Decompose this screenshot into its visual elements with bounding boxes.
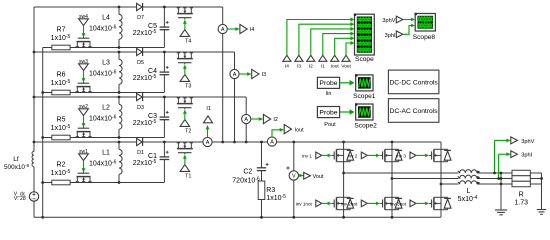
- svg-text:Vout: Vout: [313, 174, 324, 180]
- diode (antiparallel): [347, 197, 354, 209]
- gate port inv 2not: [341, 200, 380, 207]
- svg-text:T4: T4: [185, 38, 191, 44]
- svg-text:Probe: Probe: [319, 80, 337, 87]
- port 3phI (bottom): [497, 151, 532, 180]
- probe Pout: [317, 107, 339, 129]
- scope Scope2: [354, 103, 377, 129]
- port Iout: [272, 125, 304, 138]
- gate driver port T4: [180, 20, 191, 45]
- port 3phV (top): [382, 16, 402, 24]
- wire output drop row L2: [245, 97, 248, 143]
- mosfet switch FET row L1: [76, 172, 92, 183]
- wire cell top rail row L1: [34, 141, 441, 143]
- capacitor C3: [133, 96, 169, 138]
- gate driver port T1: [180, 155, 191, 180]
- svg-text:Scope8: Scope8: [413, 34, 436, 41]
- gate port sw2: [79, 104, 89, 127]
- inductor Lf: [4, 151, 34, 171]
- inductor L2: [89, 96, 122, 139]
- gate port sw4: [79, 14, 89, 37]
- diode (antiparallel): [444, 197, 451, 209]
- diode (antiparallel): [347, 149, 354, 161]
- svg-text:Probe: Probe: [319, 109, 337, 116]
- svg-text:Scope1: Scope1: [353, 93, 376, 100]
- port 3phI (top): [385, 31, 403, 39]
- gate port inv 3: [396, 152, 429, 159]
- scope Scope8: [413, 13, 436, 41]
- ground (load): [537, 210, 547, 215]
- wire output drop row L3: [233, 52, 236, 143]
- wire phase line 1: [344, 172, 459, 174]
- svg-text:3phV: 3phV: [382, 18, 395, 24]
- capacitor C4: [133, 51, 169, 93]
- inductor L1: [89, 141, 122, 184]
- diode D1: [137, 138, 144, 156]
- mosfet switch FET row L3: [76, 82, 92, 93]
- svg-text:L2: L2: [102, 105, 110, 112]
- node bus junction dots: [33, 51, 45, 219]
- wire output drop row L4: [221, 7, 224, 143]
- svg-text:Iin: Iin: [326, 91, 332, 97]
- wire cell top rail row L3: [34, 51, 235, 53]
- gate port inv 3not: [390, 200, 429, 207]
- svg-text:inv 2not: inv 2not: [341, 202, 358, 207]
- diode D5: [137, 48, 144, 66]
- wire star point: [500, 172, 503, 210]
- source V_dc: [14, 191, 39, 202]
- mosfet switch FET row L4: [76, 37, 92, 48]
- port Vout: [299, 172, 324, 179]
- diode D7: [137, 3, 144, 21]
- svg-text:I1: I1: [321, 63, 325, 69]
- svg-text:R7: R7: [57, 26, 66, 33]
- svg-text:R5: R5: [57, 116, 66, 123]
- svg-text:Scope: Scope: [355, 56, 374, 63]
- diode (antiparallel): [444, 149, 451, 161]
- svg-text:R: R: [519, 192, 524, 199]
- node bus dots: [260, 141, 393, 144]
- svg-text:L: L: [467, 188, 471, 195]
- subsystem DC-AC Controls: [388, 99, 439, 123]
- svg-text:L4: L4: [102, 15, 110, 22]
- wire probe to Scope2: [340, 109, 355, 114]
- scope Scope1: [353, 74, 376, 100]
- svg-text:T3: T3: [185, 83, 191, 89]
- gate port inv 2: [348, 152, 381, 159]
- mosfet body: [380, 149, 399, 161]
- wire 3phV to Scope8: [403, 18, 415, 21]
- svg-text:L1: L1: [102, 150, 110, 157]
- resistor R3: [258, 171, 286, 219]
- port I1 (scope feed): [319, 32, 355, 70]
- svg-text:Iout: Iout: [295, 128, 304, 134]
- svg-text:R2: R2: [57, 161, 66, 168]
- scope Scope (multichannel): [354, 14, 375, 64]
- svg-text:R6: R6: [57, 71, 66, 78]
- svg-text:I3: I3: [262, 72, 267, 78]
- svg-text:R3: R3: [266, 187, 275, 194]
- svg-text:Vout: Vout: [341, 63, 351, 69]
- ammeter Iout: [267, 137, 276, 146]
- svg-text:inv 2: inv 2: [348, 154, 358, 159]
- svg-text:I1: I1: [206, 106, 211, 112]
- ammeter A row L1 (inline): [203, 137, 212, 146]
- port Vout (scope feed): [341, 41, 354, 69]
- svg-text:V: V: [292, 174, 296, 180]
- probe Iin: [317, 77, 339, 97]
- wire inverter leg inv 1: [342, 142, 345, 219]
- svg-text:V: 28: V: 28: [14, 196, 26, 202]
- port I2 (scope feed): [307, 27, 355, 69]
- capacitor C5: [133, 6, 169, 48]
- wire cell switch-node row L3: [43, 92, 165, 94]
- gate port sw3: [79, 59, 89, 82]
- ammeter A row L4: [218, 24, 227, 33]
- mosfet body: [429, 149, 448, 161]
- svg-text:A: A: [233, 72, 237, 78]
- port I1: [204, 106, 213, 137]
- svg-text:D1: D1: [137, 150, 144, 156]
- wire cell top rail row L2: [34, 96, 246, 98]
- svg-text:Scope2: Scope2: [354, 122, 377, 129]
- ground (star point): [495, 210, 507, 215]
- svg-text:A: A: [270, 140, 274, 146]
- svg-text:inv 1not: inv 1not: [296, 202, 313, 207]
- svg-text:I2: I2: [309, 63, 313, 69]
- mosfet body: [332, 197, 351, 209]
- svg-text:T1: T1: [185, 173, 191, 179]
- gate port sw1: [79, 149, 89, 172]
- capacitor C2: [232, 142, 268, 184]
- wire left supply bus (V+): [33, 7, 35, 217]
- port I2: [251, 114, 278, 123]
- svg-text:D5: D5: [137, 60, 144, 66]
- wire inverter leg inv 2: [391, 142, 394, 219]
- gate driver port T3: [180, 65, 191, 90]
- svg-text:inv 3not: inv 3not: [390, 202, 407, 207]
- gate driver port T2: [180, 110, 191, 135]
- mosfet switch FET row L2: [76, 127, 92, 138]
- ammeter A row L3: [230, 69, 239, 78]
- wire probe to Scope1: [340, 80, 355, 85]
- svg-text:I4: I4: [250, 27, 255, 33]
- svg-text:T2: T2: [185, 128, 191, 134]
- port I3: [239, 69, 266, 78]
- svg-text:DC-DC Controls: DC-DC Controls: [389, 79, 438, 86]
- svg-text:3phI: 3phI: [385, 33, 396, 39]
- svg-text:A: A: [244, 117, 248, 123]
- mosfet rectifier FET T row L2: [177, 97, 193, 109]
- svg-text:Iout: Iout: [331, 63, 340, 69]
- svg-text:I4: I4: [285, 63, 289, 69]
- resistor R6: [51, 71, 71, 94]
- wire cell top rail row L4: [34, 6, 223, 8]
- svg-text:3phV: 3phV: [521, 139, 534, 145]
- svg-text:D7: D7: [137, 15, 144, 21]
- svg-text:A: A: [221, 27, 225, 33]
- svg-text:inv 3: inv 3: [396, 154, 406, 159]
- port I4 (scope feed): [283, 18, 355, 70]
- svg-text:A: A: [206, 140, 210, 146]
- wire 3phI to Scope8: [403, 24, 415, 35]
- wire return bus: [42, 48, 44, 218]
- svg-text:1.73: 1.73: [514, 199, 528, 206]
- port I4: [227, 24, 254, 33]
- svg-text:Lf: Lf: [13, 156, 19, 163]
- inductor L4: [89, 6, 122, 49]
- wire cell switch-node row L4: [43, 47, 165, 49]
- port 3phV (bottom): [493, 137, 535, 174]
- svg-text:DC-AC Controls: DC-AC Controls: [390, 108, 439, 115]
- mosfet rectifier FET T row L3: [177, 52, 193, 64]
- svg-text:C2: C2: [243, 168, 252, 175]
- resistor R2: [51, 161, 71, 185]
- diode D3: [137, 93, 144, 111]
- mosfet rectifier FET T row L1: [177, 142, 193, 154]
- wire phase line 3: [441, 183, 459, 185]
- svg-text:inv 1: inv 1: [302, 154, 312, 159]
- capacitor C1: [133, 141, 169, 183]
- mosfet body: [332, 149, 351, 161]
- diode (antiparallel): [395, 149, 402, 161]
- wire bottom rail (V-): [34, 216, 441, 218]
- wire phase line 2: [392, 178, 459, 180]
- svg-text:L3: L3: [102, 60, 110, 67]
- ammeter A row L2: [242, 114, 251, 123]
- wire cell switch-node row L2: [43, 137, 165, 139]
- port Iout (scope feed): [331, 36, 355, 69]
- resistor R (3-phase): [512, 170, 530, 206]
- voltmeter Vout branch: [286, 142, 298, 219]
- wire inverter leg inv 3: [440, 142, 443, 217]
- port I3 (scope feed): [295, 22, 355, 69]
- subsystem DC-DC Controls: [388, 70, 439, 94]
- resistor R7: [51, 26, 71, 50]
- resistor R5: [51, 116, 71, 140]
- inductor L (3-phase): [458, 170, 512, 203]
- svg-text:Pout: Pout: [324, 122, 336, 128]
- gate port inv 1: [302, 152, 332, 159]
- mosfet body: [429, 197, 448, 209]
- wire cell switch-node row L1: [43, 182, 165, 184]
- svg-text:D3: D3: [137, 105, 144, 111]
- svg-text:I3: I3: [297, 63, 301, 69]
- mosfet rectifier FET T row L4: [177, 7, 193, 19]
- gate port inv 1not: [296, 200, 332, 207]
- wire R to ground: [530, 173, 543, 210]
- svg-text:3phI: 3phI: [521, 153, 532, 159]
- diode (antiparallel): [395, 197, 402, 209]
- inductor L3: [89, 51, 122, 94]
- svg-text:I2: I2: [273, 117, 278, 123]
- mosfet body: [380, 197, 399, 209]
